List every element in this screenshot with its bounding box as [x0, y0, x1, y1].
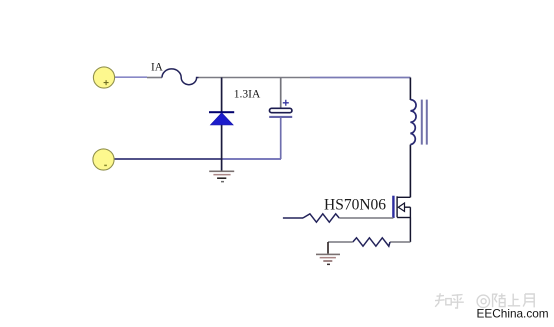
svg-text:1.3IA: 1.3IA — [234, 89, 261, 101]
svg-text:IA: IA — [151, 61, 163, 73]
svg-text:EEChina.com: EEChina.com — [477, 307, 549, 321]
svg-text:HS70N06: HS70N06 — [324, 196, 386, 213]
